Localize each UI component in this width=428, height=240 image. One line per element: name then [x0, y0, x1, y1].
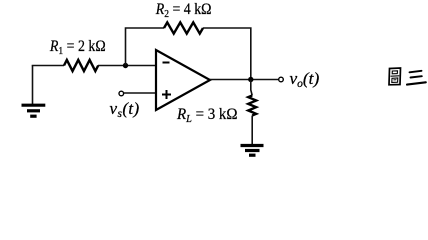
resistor R1 — [64, 60, 98, 71]
wire: op-amp output to vo terminal — [210, 79, 279, 81]
svg-text:vo(t): vo(t) — [290, 69, 320, 90]
wire: input rail left segment to R1 — [32, 65, 64, 67]
svg-text:R2 = 4 kΩ: R2 = 4 kΩ — [155, 1, 212, 20]
ground (bottom, under RL) — [241, 146, 264, 156]
wire: R2 to output node — [203, 28, 251, 80]
terminal vs(t) open circle — [119, 91, 124, 96]
resistor RL (vertical) — [248, 96, 256, 116]
wire: feedback loop up-over-down — [126, 28, 165, 66]
圖 inner bottom small box — [392, 78, 398, 82]
label figure caption 圖三 (hand drawn glyphs) — [389, 68, 426, 85]
wire: R1 to inverting input of op-amp — [98, 65, 156, 67]
op-amp minus pin symbol — [163, 62, 170, 64]
node A: junction of R1, R2, op-amp inverting input — [123, 63, 128, 68]
svg-text:R1 = 2 kΩ: R1 = 2 kΩ — [49, 38, 106, 57]
terminal vo(t) open circle — [279, 77, 284, 82]
三 middle stroke — [411, 76, 422, 77]
三 top stroke — [410, 71, 422, 73]
wire: vs terminal to non-inverting input — [124, 92, 156, 94]
圖 inner bottom box inner tick — [394, 79, 396, 81]
ground (left) — [22, 105, 46, 116]
op-amp U1 triangle — [156, 50, 210, 110]
svg-text:vs(t): vs(t) — [110, 99, 140, 120]
node B: output junction — [248, 77, 253, 82]
圖 inner middle line — [391, 75, 399, 77]
三 bottom stroke — [407, 82, 426, 84]
圖 outer box — [389, 68, 401, 85]
wire: left vertical from input rail to ground — [32, 66, 34, 106]
op-amp plus pin symbol — [162, 90, 171, 99]
resistor R2 — [164, 22, 203, 33]
圖 inner top small box — [392, 71, 397, 74]
wire: output node down to RL — [251, 80, 252, 96]
wire: RL to ground — [251, 116, 253, 146]
svg-text:RL = 3 kΩ: RL = 3 kΩ — [176, 106, 237, 126]
